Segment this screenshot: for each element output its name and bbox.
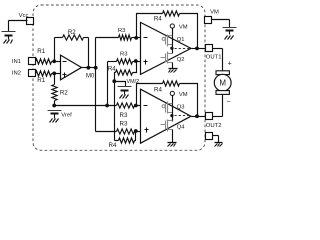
junction amp A2 plus xyxy=(134,59,138,63)
junction OUT1 xyxy=(195,47,199,51)
wire R2 right down to M0 xyxy=(88,38,90,68)
label R2 top xyxy=(68,29,76,36)
svg-text:Q4: Q4 xyxy=(177,124,186,130)
wire OUT1 to motor xyxy=(213,49,223,71)
label R1 top xyxy=(37,48,45,55)
op-amp A3 (power amp bottom) xyxy=(141,89,192,143)
wire VM/2 down xyxy=(114,82,116,141)
label OUT2 xyxy=(206,123,222,129)
ground below Q2 xyxy=(169,69,178,73)
label R4 amp2 xyxy=(154,87,162,94)
svg-text:R4: R4 xyxy=(108,66,116,73)
resistor R3 (amp A3 minus) xyxy=(117,103,141,108)
svg-text:OUT2: OUT2 xyxy=(206,123,222,129)
label R3 a xyxy=(118,28,126,34)
svg-text:R3: R3 xyxy=(120,51,128,57)
label R4 bottom xyxy=(109,142,117,149)
svg-text:M0: M0 xyxy=(86,74,95,80)
label R3 b xyxy=(120,51,128,57)
resistor R1 (IN2) xyxy=(36,71,61,76)
wire motor to OUT2 xyxy=(213,95,223,117)
junction amp A3 plus xyxy=(134,129,138,133)
dashed link to output A2 xyxy=(175,48,191,50)
wire A2 output xyxy=(192,48,207,50)
node Vcc label xyxy=(19,13,29,19)
svg-text:R3: R3 xyxy=(120,112,128,119)
label R1 bottom xyxy=(37,77,45,84)
svg-text:OUT1: OUT1 xyxy=(206,55,222,61)
junction amp A3 minus xyxy=(134,104,138,108)
svg-text:IN2: IN2 xyxy=(12,70,21,76)
svg-text:R1: R1 xyxy=(37,48,45,55)
label Q1 xyxy=(177,37,185,43)
A3 minus symbol xyxy=(144,105,148,107)
junction minus-input op-amp U1 xyxy=(52,59,56,63)
junction OUT2 xyxy=(195,114,199,118)
terminal pad Vcc xyxy=(27,18,34,25)
svg-text:−: − xyxy=(226,98,230,105)
junction amp A2 minus xyxy=(134,36,138,40)
wire Q1 to out node xyxy=(172,36,174,54)
resistor R4 (A3 bias) xyxy=(115,132,136,144)
motor M1 body xyxy=(214,74,231,91)
capacitor C-Vcc to ground xyxy=(2,32,16,44)
svg-text:Q3: Q3 xyxy=(177,104,185,110)
svg-text:+: + xyxy=(228,61,232,68)
wire R3b lead xyxy=(108,62,117,106)
ground at GND pad xyxy=(215,143,223,147)
capacitor C-VM/2 to ground xyxy=(118,87,132,99)
label VM pad xyxy=(210,9,219,15)
dashed link to output A3 xyxy=(175,115,191,117)
node M0 label xyxy=(86,74,95,80)
op-amp U1 minus symbol xyxy=(63,61,67,63)
node IN2 label xyxy=(12,70,21,76)
transistor Q3 xyxy=(162,102,172,114)
wire Q4 to ground xyxy=(172,130,174,143)
svg-text:Q2: Q2 xyxy=(177,57,185,63)
wire A3 output xyxy=(192,116,207,118)
terminal pad OUT1 xyxy=(206,45,213,52)
junction M0 b xyxy=(94,66,98,70)
VM circle A2 xyxy=(170,24,174,36)
svg-text:VM: VM xyxy=(179,25,188,31)
A3 plus symbol xyxy=(145,128,149,133)
svg-text:M: M xyxy=(219,79,226,88)
svg-text:VM: VM xyxy=(210,9,219,15)
resistor R3 (amp A2 minus) xyxy=(119,35,141,40)
label Q3 xyxy=(177,104,185,110)
label R3 d xyxy=(120,120,128,127)
svg-text:R2: R2 xyxy=(68,29,76,36)
motor M1 brush bottom xyxy=(216,91,229,95)
label VM/2 xyxy=(127,79,140,85)
IC boundary (dashed box) xyxy=(33,5,205,150)
resistor R4 (A2 feedback) xyxy=(137,11,198,49)
svg-text:R4: R4 xyxy=(154,15,162,22)
wire M0 down to R3d xyxy=(96,68,117,132)
node IN1 label xyxy=(12,59,21,65)
label motor plus xyxy=(228,61,232,68)
wire Vcc pad to cap xyxy=(9,21,28,32)
label OUT1 xyxy=(206,55,222,61)
label R4 top xyxy=(154,15,162,22)
resistor R1 (IN1) xyxy=(36,59,61,64)
wire VM/2 to cap xyxy=(115,82,126,87)
wire Vref rail xyxy=(55,105,117,107)
wire U1 output xyxy=(82,67,96,69)
svg-text:R2: R2 xyxy=(60,90,68,97)
junction plus-input op-amp U1 xyxy=(52,72,56,76)
terminal pad IN1 xyxy=(29,58,36,65)
label R4 mid xyxy=(108,66,116,73)
wire Q2 to ground xyxy=(172,63,174,69)
resistor R2 feedback xyxy=(55,35,89,40)
svg-text:R1: R1 xyxy=(37,77,45,84)
wire plus node down to R2b xyxy=(54,74,56,85)
svg-text:VM: VM xyxy=(179,92,188,98)
resistor R4 (A3 feedback) xyxy=(137,81,198,117)
junction Vref node xyxy=(52,104,56,108)
terminal pad GND xyxy=(206,133,213,140)
VM circle A3 xyxy=(170,91,174,103)
terminal pad OUT2 xyxy=(206,113,213,120)
capacitor C-VM to ground xyxy=(223,28,237,40)
terminal pad VM xyxy=(205,17,212,24)
junction half-bridge out A2 xyxy=(170,47,173,50)
label VM on A2 xyxy=(179,25,188,31)
A2 minus symbol xyxy=(144,37,148,39)
junction half-bridge out A3 xyxy=(170,114,173,117)
label VM on A3 xyxy=(179,92,188,98)
label R2 right xyxy=(60,90,68,97)
resistor R3 (amp A2 plus) xyxy=(117,59,141,64)
resistor R3 (amp A3 plus) xyxy=(117,129,141,134)
transistor Q4 xyxy=(161,120,173,132)
svg-text:R4: R4 xyxy=(109,142,117,149)
svg-text:IN1: IN1 xyxy=(12,59,21,65)
op-amp U1 plus symbol xyxy=(63,73,67,78)
svg-text:R3: R3 xyxy=(120,120,128,127)
resistor R2 (to Vref) xyxy=(52,85,57,106)
Vref capacitor-ground xyxy=(48,111,62,123)
wire minus node up to R2 xyxy=(54,38,56,62)
terminal pad IN2 xyxy=(29,70,36,77)
transistor Q2 xyxy=(161,52,173,64)
label Vref xyxy=(61,113,72,119)
label Q2 xyxy=(177,57,185,63)
label R3 c xyxy=(120,112,128,119)
junction M0 a xyxy=(87,66,91,70)
junction VM/2 xyxy=(112,79,116,83)
wire VM to cap xyxy=(212,20,230,28)
label motor minus xyxy=(226,98,230,105)
wire Q3 to out node xyxy=(172,104,174,122)
motor M1 brush top xyxy=(216,71,229,75)
op-amp U1 xyxy=(61,55,82,80)
op-amp A2 (power amp top) xyxy=(141,22,192,74)
svg-text:R4: R4 xyxy=(154,87,162,94)
svg-text:Q1: Q1 xyxy=(177,37,185,43)
wire GND pad to ground xyxy=(213,136,219,143)
junction rail/R3b xyxy=(105,104,109,108)
svg-text:R3: R3 xyxy=(118,28,126,34)
transistor Q1 xyxy=(162,35,172,47)
resistor R4 (A2 bias) xyxy=(115,62,137,82)
svg-text:Vref: Vref xyxy=(61,113,72,119)
ground below Q4 xyxy=(168,143,177,147)
label Q4 xyxy=(177,124,186,130)
wire M0 up to R3a xyxy=(96,38,119,68)
A2 plus symbol xyxy=(144,60,148,65)
